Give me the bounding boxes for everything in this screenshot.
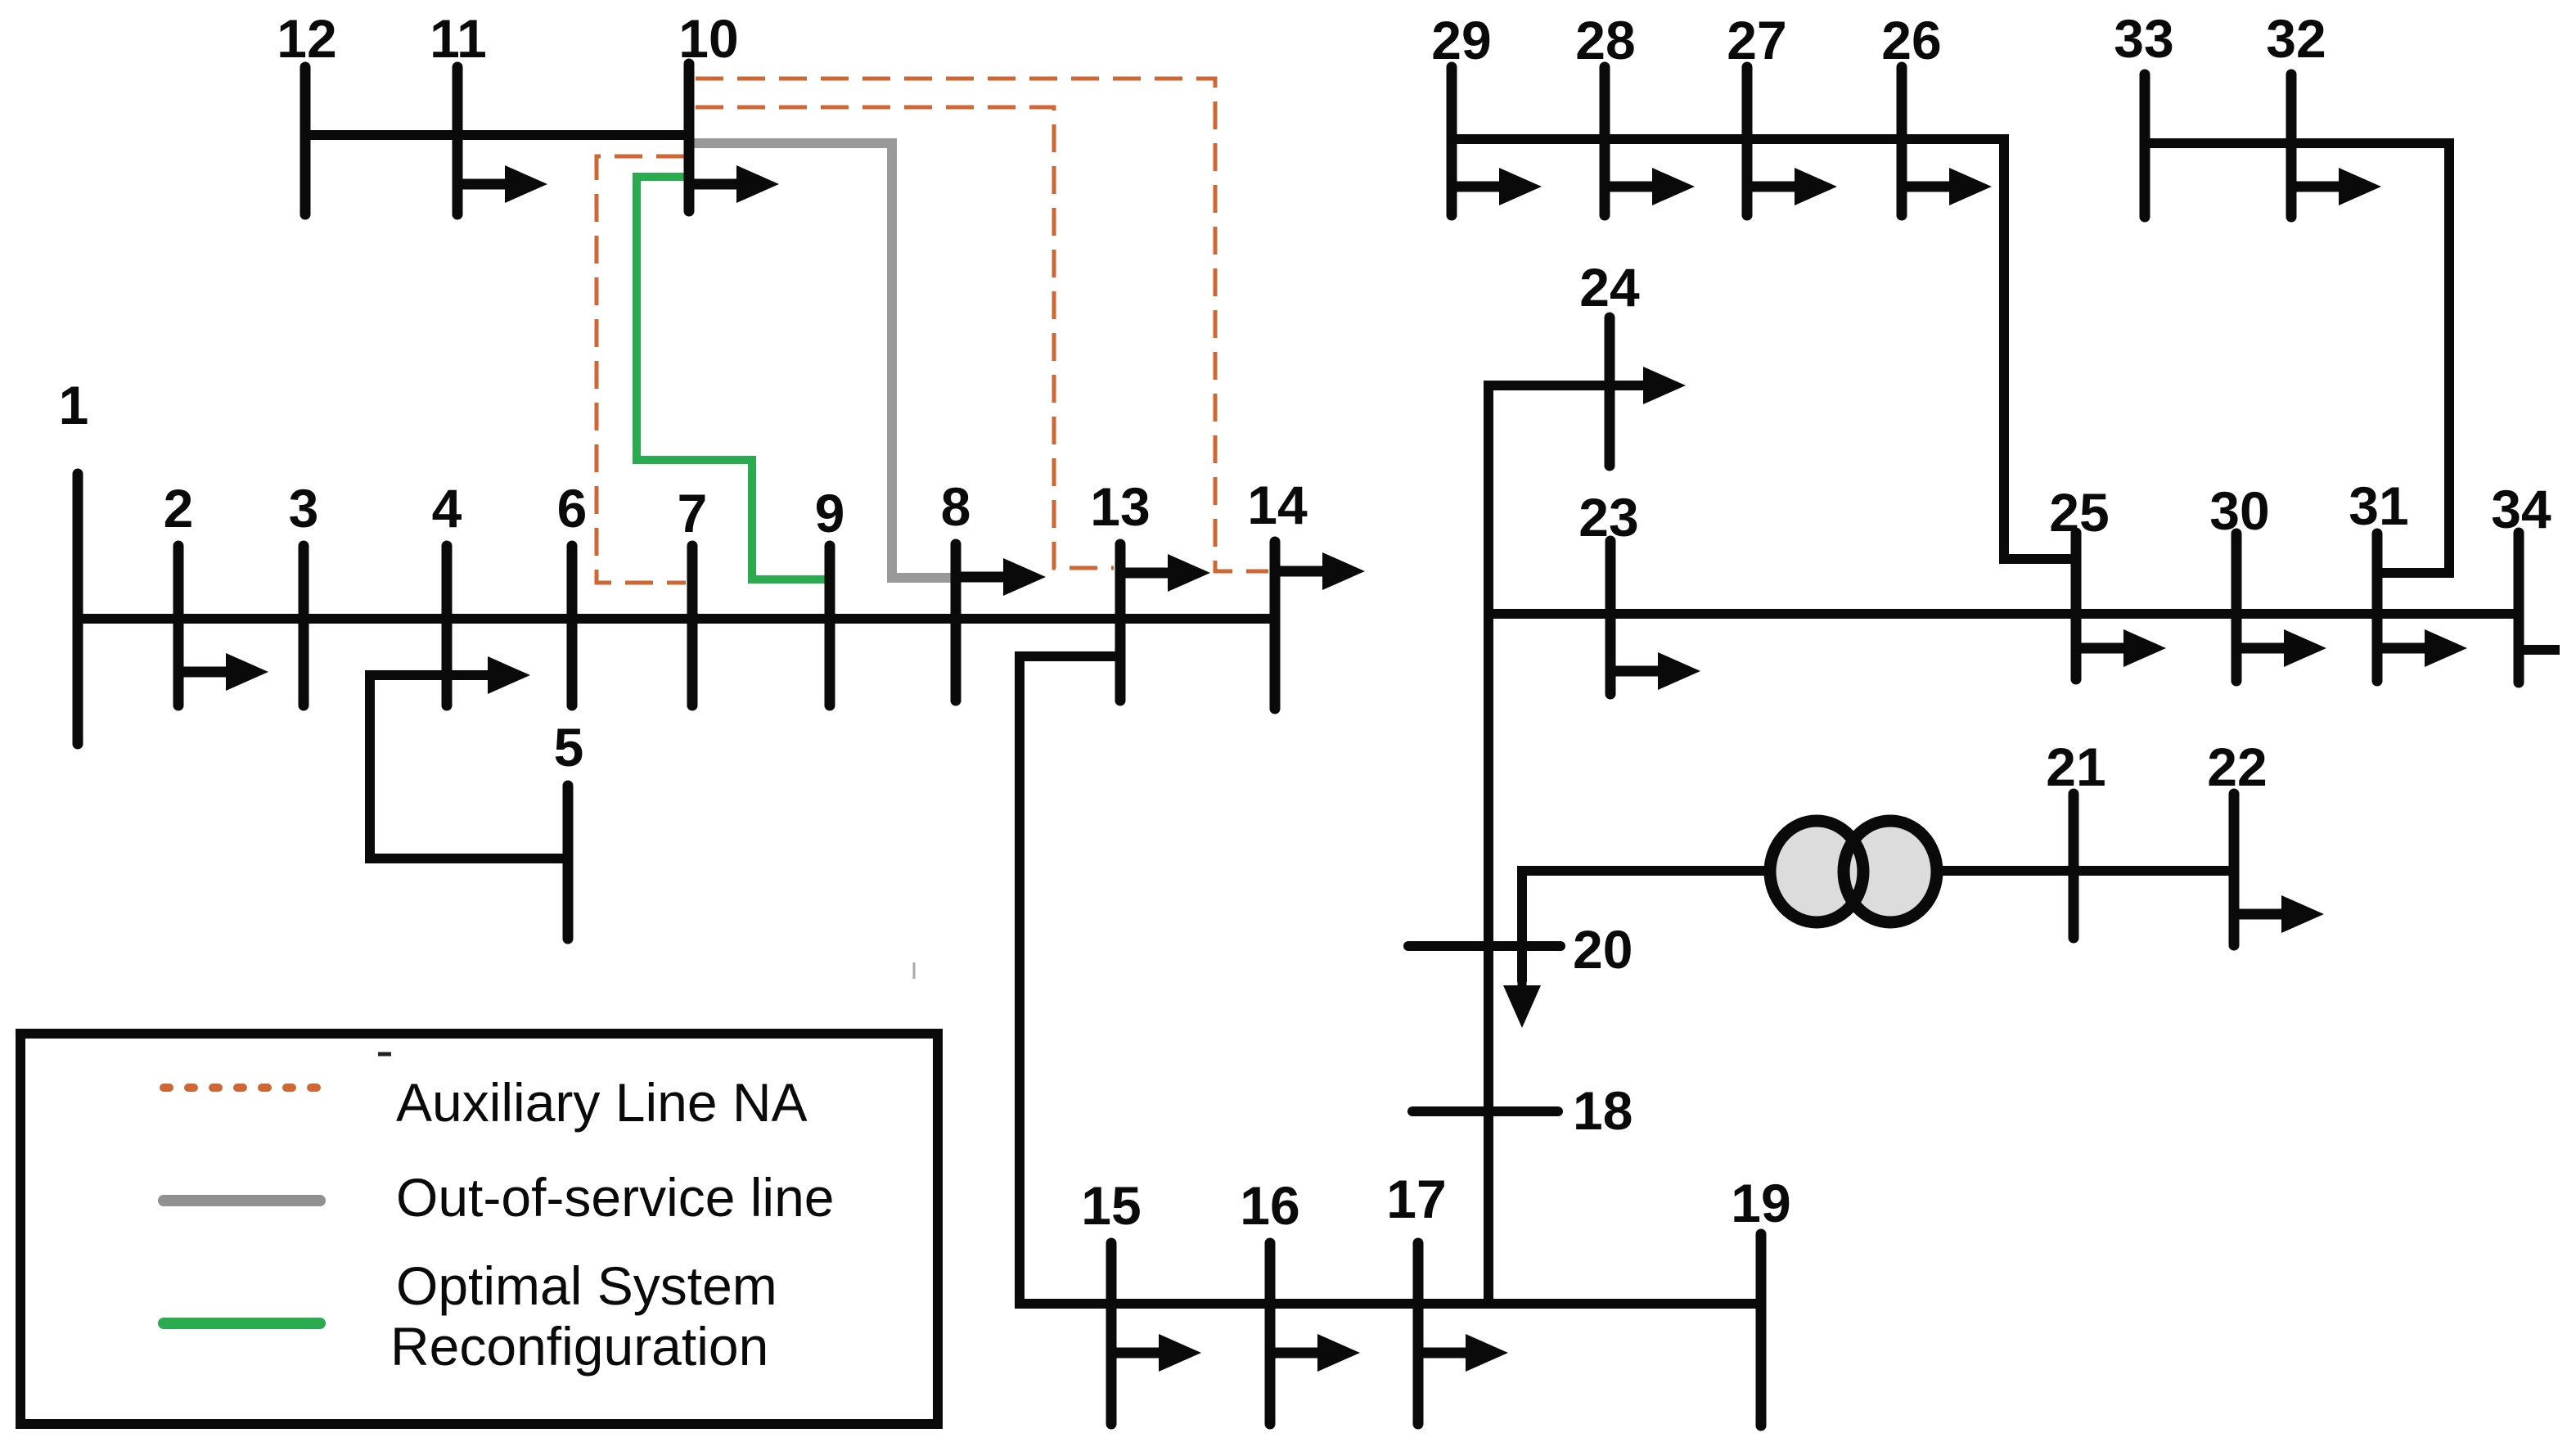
svg-text:Optimal System: Optimal System [396,1255,777,1316]
load stub at bus 34 [2519,645,2560,655]
load arrow at bus 17 [1418,1348,1470,1359]
bus 23 [1578,487,1638,694]
bus 18 [1412,1080,1633,1141]
legend box [20,1034,938,1424]
small stray mark above legend [378,1052,391,1057]
svg-text:16: 16 [1240,1175,1299,1236]
svg-text:6: 6 [557,478,588,538]
load arrow at bus 15 [1111,1348,1164,1359]
bus 31 [2349,475,2408,681]
bus 30 [2209,480,2269,681]
bus 32 [2266,8,2326,217]
load arrow at bus 28 [1605,182,1657,192]
wire: top-left feeder bus12-bus11-bus10 [305,130,694,140]
svg-text:21: 21 [2046,737,2105,797]
bus 29 [1431,10,1491,215]
svg-text:22: 22 [2207,737,2267,797]
svg-text:Auxiliary Line NA: Auxiliary Line NA [396,1072,808,1133]
bus 8 [941,476,971,701]
wire: bottom feeder bus15-bus16-bus17-bus19 [1020,1299,1761,1309]
wire: vertical trunk bus24-bus23-bus20-bus18 to bottom feeder [1488,385,1646,1304]
bus 7 [678,483,708,705]
svg-text:11: 11 [430,8,487,69]
svg-text:18: 18 [1573,1080,1633,1141]
bus 21 [2046,737,2105,938]
bus 3 [289,478,319,705]
bus 2 [164,478,194,705]
load arrow at bus 22 [2234,909,2286,920]
svg-text:15: 15 [1081,1175,1141,1236]
bus 9 [815,483,845,705]
legend: optimal system reconfiguration sample [164,1318,320,1329]
load arrow at bus 30 [2236,643,2289,654]
wire: branch bus13 down to bottom feeder [1020,656,1115,1309]
transformer between bus 20 and bus 21 (two overlapping circles) [1770,821,1937,922]
load arrow at bus 27 [1747,182,1799,192]
out-of-service line bus10 to bus8 (gray) [694,143,952,578]
bus 12 [277,8,336,214]
svg-text:19: 19 [1731,1173,1790,1233]
svg-text:31: 31 [2349,475,2408,536]
svg-text:27: 27 [1727,10,1786,70]
auxiliary line NA bus10 to bus13 (inner dashed) [696,107,1114,568]
svg-text:5: 5 [554,717,584,777]
bus 4 [432,478,462,705]
svg-text:13: 13 [1090,476,1150,537]
svg-text:32: 32 [2266,8,2326,69]
bus 27 [1727,10,1786,215]
wire: main feeder bus1 to bus14 [78,614,1279,624]
bus 5 [554,717,584,939]
svg-text:20: 20 [1573,919,1633,980]
svg-text:30: 30 [2209,480,2269,541]
bus 20 [1408,919,1633,980]
bus 10 [678,8,738,211]
legend: out-of-service line sample [164,1195,320,1206]
load arrow at bus 20 (down) [1518,871,1527,989]
bus 1 [59,375,89,744]
wire: feeder bus29-bus28-bus27-bus26 with drop to bus25 [1452,139,2072,559]
auxiliary line NA bus10 to bus7 (left dashed) [597,156,686,583]
bus 33 [2114,8,2173,217]
svg-text:17: 17 [1386,1169,1446,1229]
svg-text:3: 3 [289,478,319,538]
load arrow at bus 11 [457,179,510,190]
optimal system reconfiguration line bus10 to bus9 (green) [637,177,826,579]
load arrow at bus 2 [178,667,231,678]
bus 25 [2049,482,2109,679]
wire: transformer to bus21-bus22 [1939,866,2234,876]
svg-text:14: 14 [1247,475,1308,535]
wire: transformer branch from bus20 stub to transformer [1522,871,1768,982]
svg-text:25: 25 [2049,482,2109,543]
bus 16 [1240,1175,1299,1424]
svg-text:8: 8 [941,476,971,537]
svg-text:33: 33 [2114,8,2173,69]
bus 13 [1090,476,1150,701]
load arrow at bus 26 [1902,182,1954,192]
load arrow at bus 31 [2377,643,2430,654]
svg-text:10: 10 [678,8,738,69]
wire: right feeder bus23-bus25-bus30-bus31-bus34 [1488,609,2519,619]
legend: auxiliary line NA dashed sample [164,1084,320,1092]
svg-text:4: 4 [432,478,462,538]
bus 22 [2207,737,2267,945]
load arrow at bus 14 [1275,566,1327,577]
load arrow at bus 13 [1120,568,1173,579]
wire: branch bus4 down to bus5 [370,675,568,858]
wire: feeder bus33-bus32 with drop to bus31 [2145,143,2449,573]
svg-text:Reconfiguration: Reconfiguration [390,1316,768,1377]
bus 19 [1731,1173,1790,1426]
svg-text:34: 34 [2491,479,2551,539]
bus 11 [430,8,487,214]
svg-text:1: 1 [59,375,89,435]
bus 24 [1579,257,1640,466]
bus 26 [1881,10,1941,215]
svg-text:28: 28 [1575,10,1635,70]
svg-text:24: 24 [1579,257,1640,318]
auxiliary line NA bus10 to bus14 (outer dashed) [696,79,1268,571]
svg-text:Out-of-service line: Out-of-service line [396,1167,835,1228]
load arrow at bus 8 [956,572,1008,583]
bus 34 [2491,479,2551,683]
svg-text:23: 23 [1578,487,1638,548]
load arrow at bus 23 [1610,666,1663,677]
load arrow at bus 24 [1643,367,1686,404]
load arrow at bus 10 [689,179,741,190]
bus 14 [1247,475,1308,709]
bus 17 [1386,1169,1446,1424]
load arrow at bus 32 [2291,182,2344,192]
load arrow at bus 29 [1452,182,1504,192]
faint stray mark near bus 15 [913,962,916,979]
load arrow at bus 25 [2076,643,2128,654]
svg-text:9: 9 [815,483,845,543]
svg-text:26: 26 [1881,10,1941,70]
bus 6 [557,478,588,705]
svg-text:29: 29 [1431,10,1491,70]
svg-text:2: 2 [164,478,194,538]
load arrow at bus 16 [1270,1348,1322,1359]
bus 28 [1575,10,1635,215]
bus 15 [1081,1175,1141,1424]
load arrow at bus 4 [488,656,530,694]
svg-text:12: 12 [277,8,336,69]
svg-text:7: 7 [678,483,708,543]
